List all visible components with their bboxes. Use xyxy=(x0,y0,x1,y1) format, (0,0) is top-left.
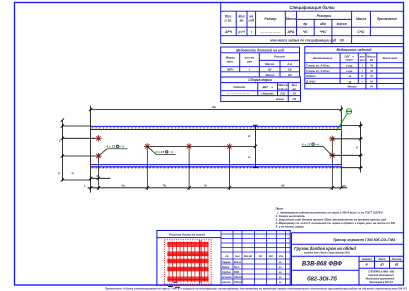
rebar marker M5 xyxy=(226,143,232,149)
left dimension labels xyxy=(57,140,74,175)
red mesh dotted border xyxy=(164,239,212,285)
bottom dimension line xyxy=(88,186,348,189)
inner depth labels xyxy=(248,134,250,159)
svg-text:шт: шт xyxy=(360,59,365,62)
svg-text:АН: АН xyxy=(258,255,263,258)
svg-text:б82-ЗОІ-7б: б82-ЗОІ-7б xyxy=(307,276,337,283)
stage header xyxy=(362,258,402,267)
svg-text:х: х xyxy=(58,140,61,143)
svg-text:І: І xyxy=(251,30,252,34)
svg-text:4 х 15: 4 х 15 xyxy=(106,145,116,149)
svg-text:Кнб-б: Кнб-б xyxy=(234,261,241,264)
title block frame xyxy=(292,233,404,286)
svg-text:изд: изд xyxy=(248,19,254,23)
beam top chord xyxy=(91,126,341,129)
svg-text:1. Арматурные изделия выполнит: 1. Арматурные изделия выполнить по серии… xyxy=(277,210,383,214)
bottom dimension labels xyxy=(84,184,346,189)
svg-text:ІЗІ: ІЗІ xyxy=(292,97,296,101)
organization cell xyxy=(366,270,395,284)
svg-text:202: 202 xyxy=(279,91,285,95)
svg-text:Листов: Листов xyxy=(391,258,402,261)
detail list table A xyxy=(221,47,300,77)
svg-text:Іб: Іб xyxy=(204,184,207,188)
svg-text:ІЗІ: ІЗІ xyxy=(340,38,344,42)
rebar marker M7 xyxy=(329,152,335,158)
svg-text:І: І xyxy=(249,67,250,71)
svg-text:Масса: Масса xyxy=(356,17,366,21)
right extension lines xyxy=(333,122,363,173)
svg-text:Сталь кл. А-ІІІ мз: Сталь кл. А-ІІІ мз xyxy=(306,69,330,73)
svg-text:массне: массне xyxy=(222,281,231,284)
svg-text:всего: всего xyxy=(276,97,285,101)
inner depth dimension xyxy=(253,125,258,168)
svg-text:Км-4: Км-4 xyxy=(234,266,240,269)
assembly table B xyxy=(221,77,301,102)
svg-text:— — — — — —: — — — — — — xyxy=(226,91,250,95)
beam bottom chord xyxy=(91,165,341,168)
svg-text:dча: dча xyxy=(279,255,284,258)
svg-text:ОБГ - ч: ОБГ - ч xyxy=(344,54,354,58)
svg-text:гг: гг xyxy=(279,281,282,284)
svg-text:— — — — —: — — — — — xyxy=(259,30,281,34)
legend grid text xyxy=(222,255,284,284)
beam top dimension line xyxy=(89,106,343,193)
svg-text:масса: масса xyxy=(337,22,347,26)
svg-text:Грузов балдов крон на обdнd: Грузов балдов крон на обdнd xyxy=(294,246,356,251)
svg-text:Ведомость изделий: Ведомость изделий xyxy=(336,48,372,52)
svg-text:Масса: Масса xyxy=(265,62,275,66)
svg-text:ЧІ: ЧІ xyxy=(370,64,373,68)
svg-text:3. Защитный слой бетона принят: 3. Защитный слой бетона принят 25мм, мон… xyxy=(276,218,387,222)
svg-text:Ленинград в КЖ-ОЗ: Ленинград в КЖ-ОЗ xyxy=(368,281,393,284)
svg-text:L: L xyxy=(84,184,86,188)
svg-text:Работа: Работа xyxy=(233,85,245,89)
svg-text:гг: гг xyxy=(279,276,282,279)
svg-text:Д.АНЫ: Д.АНЫ xyxy=(305,79,316,83)
legend table frame xyxy=(157,231,290,286)
svg-text:Вибка: Вибка xyxy=(222,266,230,269)
svg-text:эта масса задана по спецификац: эта масса задана по спецификации изд xyxy=(270,38,336,42)
svg-text:І: І xyxy=(362,79,363,83)
svg-text:Примечание: Примечание xyxy=(377,17,397,21)
svg-text:Сборка марки: Сборка марки xyxy=(248,78,272,82)
blue mark under mesh xyxy=(173,281,177,283)
svg-text:- щ: - щ xyxy=(347,80,352,83)
svg-text:Рисунок балки на мзалd: Рисунок балки на мзалd xyxy=(169,232,205,236)
svg-text:.: . xyxy=(268,271,269,274)
rebar marker M1 xyxy=(95,135,101,141)
svg-text:гг: гг xyxy=(279,271,282,274)
svg-text:- щ: - щ xyxy=(347,75,352,78)
svg-text:Итого: Итого xyxy=(348,85,357,89)
svg-text:тьс: тьс xyxy=(235,255,241,258)
svg-text:ед: ед xyxy=(370,58,374,62)
left dimension chain xyxy=(61,118,96,181)
svg-text:кол: кол xyxy=(360,55,365,58)
rebar marker M2 xyxy=(95,153,101,159)
svg-text:Наименование: Наименование xyxy=(313,56,333,60)
svg-text:d: d xyxy=(248,134,250,138)
svg-text:= д: = д xyxy=(119,145,124,149)
svg-text:4 х 15: 4 х 15 xyxy=(301,142,311,146)
svg-text:р ІЧ: р ІЧ xyxy=(238,30,246,34)
leader B xyxy=(147,146,175,154)
svg-text:Р: Р xyxy=(366,263,369,267)
svg-text:встыка: встыка xyxy=(222,276,232,279)
svg-text:7b: 7b xyxy=(163,184,166,188)
svg-text:Кол-dо: Кол-dо xyxy=(244,255,253,258)
svg-text:ІЗІ: ІЗІ xyxy=(268,67,272,71)
svg-text:7б: 7б xyxy=(343,184,346,188)
svg-text:.: . xyxy=(268,266,269,269)
svg-text:Размер: Размер xyxy=(264,17,276,21)
spec table lines xyxy=(221,2,404,43)
svg-text:= д: = д xyxy=(168,150,173,154)
svg-text:ФЛЧ: ФЛЧ xyxy=(227,67,234,71)
svg-text:ЧЧС: ЧЧС xyxy=(319,30,327,34)
svg-text:гг: гг xyxy=(279,261,282,264)
svg-text:сандана для сЧалd и бала индик: сандана для сЧалd и бала индикат ФЧL xyxy=(304,252,351,255)
svg-text:Масса: Масса xyxy=(286,17,296,21)
svg-text:ВЗВ-868 ФВФ: ВЗВ-868 ФВФ xyxy=(302,261,342,268)
svg-text:г-ща: г-ща xyxy=(346,65,353,68)
rebar marker verticals xyxy=(98,139,332,190)
svg-text:d: d xyxy=(248,155,250,159)
svg-text:ІЧ: ІЧ xyxy=(370,85,373,89)
leader C xyxy=(302,147,332,156)
svg-text:Обсоос: Обсоос xyxy=(234,281,244,284)
legend grid lines xyxy=(221,231,290,286)
rebar marker M4 xyxy=(186,143,192,149)
svg-text:изд,кг: изд,кг xyxy=(278,87,288,91)
svg-text:ЧІ: ЧІ xyxy=(370,74,373,78)
section mark circle xyxy=(346,109,351,114)
svg-text:Ча: Ча xyxy=(121,184,125,188)
svg-text:дет.: дет. xyxy=(227,60,234,64)
svg-text:ІП: ІП xyxy=(380,263,384,267)
svg-text:.: . xyxy=(268,261,269,264)
steel list table C text xyxy=(305,48,398,88)
svg-text:АРА: АРА xyxy=(287,30,295,34)
svg-text:Сварка: Сварка xyxy=(222,261,231,264)
svg-text:.: . xyxy=(261,276,262,279)
svg-text:Прим.: Прим. xyxy=(276,207,284,211)
svg-text:Примечание: d балка спроектиро: Примечание: d балка спроектирована по се… xyxy=(105,287,407,291)
svg-text:ІІа: ІІа xyxy=(212,105,216,109)
mesh under-border marks xyxy=(168,285,180,288)
steel list table C xyxy=(305,47,404,89)
svg-text:шт: шт xyxy=(247,60,253,64)
svg-text:Масса: Масса xyxy=(367,54,376,58)
svg-text:І: І xyxy=(362,64,363,68)
svg-text:во: во xyxy=(240,19,244,23)
svg-text:Трасир кориант ГМ4 КЖ-ОЗ-ГМ4: Трасир кориант ГМ4 КЖ-ОЗ-ГМ4 xyxy=(333,238,396,242)
svg-text:іП: іП xyxy=(395,263,399,267)
svg-text:Всего масс: Всего масс xyxy=(383,56,399,60)
svg-text:Ведомость деталей на изд: Ведомость деталей на изд xyxy=(236,48,284,52)
svg-text:2. Сварку выполнять: 2. Сварку выполнять xyxy=(275,214,306,218)
detail list table A text xyxy=(226,48,293,77)
notes block xyxy=(275,207,396,229)
svg-text:ГОСТ: ГОСТ xyxy=(346,58,354,62)
svg-text:Стадия: Стадия xyxy=(362,258,372,261)
svg-text:КбМ: КбМ xyxy=(234,271,240,274)
svg-text:СЧС: СЧС xyxy=(357,30,365,34)
svg-text:ДЕГ - ч: ДЕГ - ч xyxy=(261,85,273,89)
assembly table B text xyxy=(226,78,297,101)
svg-text:Обсоос: Обсоос xyxy=(234,276,244,279)
svg-text:ІЧ: ІЧ xyxy=(293,91,297,95)
svg-text:во: во xyxy=(293,87,297,91)
svg-text:др: др xyxy=(226,255,229,258)
svg-text:Срубна: Срубна xyxy=(222,271,231,274)
svg-text:І: І xyxy=(362,69,363,73)
svg-text:х|: х| xyxy=(57,171,60,175)
svg-text:и эл.: и эл. xyxy=(225,19,233,23)
section mark leader xyxy=(337,114,348,131)
svg-text:г-ща: г-ща xyxy=(346,70,353,73)
svg-text:4: 4 xyxy=(355,146,358,150)
svg-text:ё.м: ё.м xyxy=(287,62,293,66)
svg-text:АРЧ: АРЧ xyxy=(224,30,233,34)
svg-text:гг: гг xyxy=(279,266,282,269)
rebar marker M3 xyxy=(144,143,150,149)
red mesh drawing xyxy=(167,243,208,281)
svg-text:ІбІ: ІбІ xyxy=(281,184,284,188)
rebar marker M6 xyxy=(329,136,335,142)
leader A xyxy=(98,149,127,156)
svg-text:«Наимд»: «Наимд» xyxy=(261,91,274,95)
svg-text:ЧС: ЧС xyxy=(303,30,308,34)
svg-text:х|: х| xyxy=(71,171,74,175)
svg-text:4 х 15: 4 х 15 xyxy=(155,150,165,154)
svg-text:Спецификация балки: Спецификация балки xyxy=(289,5,335,10)
svg-text:ЧІ: ЧІ xyxy=(370,69,373,73)
svg-text:= д: = д xyxy=(315,142,320,146)
small 31 dimension xyxy=(89,177,111,180)
svg-text:ЗІ: ЗІ xyxy=(96,174,99,178)
svg-text:Расход: Расход xyxy=(274,55,285,59)
svg-text:ІЗІ: ІЗІ xyxy=(288,67,292,71)
svg-text:Сталь кл. А-ІІІ мз: Сталь кл. А-ІІІ мз xyxy=(306,64,330,68)
svg-text:Всего: Всего xyxy=(266,73,275,77)
svg-text:ІЗІ: ІЗІ xyxy=(288,73,292,77)
svg-text:8: 8 xyxy=(361,74,363,78)
svg-text:Обрезк: Обрезк xyxy=(306,74,316,78)
spec table text xyxy=(224,5,397,42)
svg-text:5. и по месту сварки: 5. и по месту сварки xyxy=(276,224,305,228)
svg-text:Размеры: Размеры xyxy=(317,14,332,18)
svg-text:ЧІ: ЧІ xyxy=(370,79,373,83)
svg-text:вр: вр xyxy=(303,22,307,26)
svg-text:Лист: Лист xyxy=(378,258,387,261)
svg-text:абв: абв xyxy=(320,22,326,26)
svg-text:dоc: dоc xyxy=(269,255,274,258)
